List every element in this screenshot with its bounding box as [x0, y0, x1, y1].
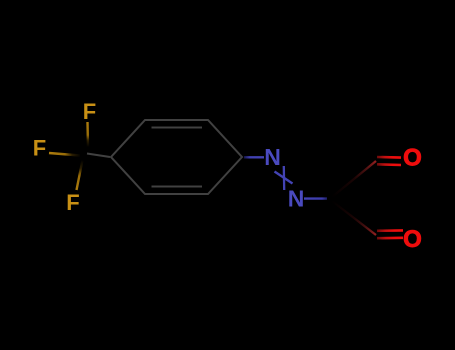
- svg-text:O: O: [403, 226, 422, 253]
- benzene ring C1-C6: [111, 120, 242, 194]
- svg-text:N: N: [288, 186, 305, 212]
- ring double bond inner line bottom: [152, 186, 203, 188]
- bond C7-F1: [86, 122, 89, 147]
- svg-text:F: F: [33, 136, 46, 161]
- bond C8-C9 (to top aldehyde carbon): [332, 161, 376, 197]
- carbonyl C9=O1 double bond line 1: [377, 156, 401, 159]
- bond C8-C10 (to bottom aldehyde carbon): [332, 201, 376, 235]
- svg-text:F: F: [83, 99, 96, 124]
- carbonyl C9=O1 double bond line 2: [377, 163, 401, 166]
- azo N1=N2 double bond line a (vertical): [283, 166, 286, 190]
- svg-text:N: N: [264, 144, 281, 170]
- ring double bond inner line top: [152, 127, 203, 129]
- svg-text:O: O: [403, 145, 422, 172]
- carbonyl C10=O2 double bond line 2: [377, 237, 403, 240]
- svg-text:F: F: [66, 190, 79, 215]
- carbonyl C10=O2 double bond line 1: [377, 229, 403, 232]
- bond C7-F3: [77, 160, 83, 190]
- bond N2-C8: [304, 197, 327, 199]
- azo N1=N2 double bond line b (diagonal): [275, 172, 293, 184]
- bond C4-N1: [244, 156, 264, 158]
- bond C7-F2: [49, 153, 80, 156]
- bond C7-C1 (CF3 carbon to ring): [87, 154, 110, 158]
